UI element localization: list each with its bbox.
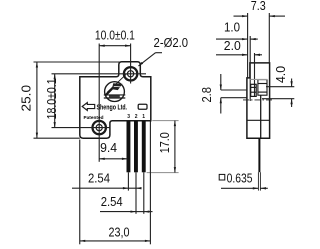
label 2-Ø2.0 leader line with arrow: [156, 52, 163, 54]
logo circle emblem: [105, 82, 125, 102]
side view internal vertical front layer 1: [249, 36, 251, 101]
dimension 9.4 line with arrows: [99, 158, 127, 160]
small rounded badge: [138, 104, 147, 109]
dimension 7.3 line with outside arrows: [234, 15, 248, 17]
svg-text:2.54: 2.54: [101, 194, 123, 209]
svg-text:2-Ø2.0: 2-Ø2.0: [154, 35, 189, 50]
pin 3 (left): [127, 121, 131, 172]
grey extension line at pin bottom for 17.0: [147, 172, 179, 174]
dimension 2.54 (pins 3-2) line with outside arrows: [72, 187, 128, 189]
dimension 17.0 vertical line with arrows: [174, 121, 176, 173]
logo ground band upper line: [104, 94, 126, 96]
bottom hole vertical centerline / 10.0 + 9.4 extension line: [98, 44, 100, 162]
extension line lower for 4.0: [262, 98, 294, 100]
svg-text:2.8: 2.8: [199, 87, 214, 103]
dash-dot centerline: [243, 99, 274, 101]
square symbol for 0.635: [219, 174, 225, 180]
bottom mounting hole inner circle: [96, 125, 102, 131]
top mounting hole boss outer circle: [124, 67, 137, 80]
rear box internal line 1: [258, 83, 267, 85]
bottom mounting hole boss outer circle: [93, 121, 106, 134]
logo ground band lower line: [104, 97, 126, 99]
logo flagpole thick diagonal: [106, 87, 114, 95]
dimension 18.0±0.1 vertical line with arrows: [54, 74, 56, 128]
side view pin (edge-on): [258, 138, 260, 172]
svg-text:1.0: 1.0: [224, 20, 240, 35]
dimension 10.0±0.1 line with arrows: [99, 45, 130, 47]
side view grey internal shelf line: [250, 78, 267, 80]
pin 1 extension line: [143, 172, 145, 214]
extension line left for 23.0: [79, 140, 81, 245]
pin edge extension line left: [257, 172, 259, 190]
element internal line 2: [251, 91, 257, 93]
logo flag white stripe: [114, 85, 121, 88]
rear box internal line 2: [258, 91, 267, 93]
top hole horizontal centerline / 18.0 extension line: [52, 73, 147, 75]
dimension 25.0 vertical line with arrows: [36, 62, 38, 138]
svg-text:23,0: 23,0: [109, 225, 130, 240]
svg-text:17.0: 17.0: [157, 132, 172, 153]
side view internal rear box: [258, 80, 267, 96]
svg-text:Shengo: Shengo: [97, 105, 117, 112]
pin 2 (middle): [134, 121, 138, 172]
top mounting hole inner circle: [128, 71, 134, 77]
svg-text:0.635: 0.635: [227, 171, 253, 186]
element internal line 1: [251, 86, 257, 88]
front view package body outline: [80, 62, 151, 139]
svg-text:9.4: 9.4: [100, 140, 117, 155]
extension line lower for 2.8: [221, 97, 247, 99]
svg-text:2.54: 2.54: [88, 170, 110, 185]
bottom hole horizontal centerline / 18.0 extension line: [52, 127, 111, 129]
dimension 4.0 vertical with outside arrows: [291, 79, 293, 87]
side view sensing element box: [251, 84, 257, 96]
svg-text:2: 2: [135, 114, 138, 120]
dimension 2.54 (pins 2-1) line with outside arrows: [100, 211, 136, 213]
dimension 23.0 line with arrows: [80, 240, 151, 242]
dimension 1.0 line with outside arrows: [216, 38, 248, 40]
pin 3 extension line: [127, 172, 129, 190]
svg-text:2.0: 2.0: [224, 38, 241, 53]
logo ground band dark rect: [109, 95, 120, 97]
pin edge extension line right: [259, 172, 261, 190]
extension line upper for 4.0: [266, 86, 294, 88]
pin 1 (right): [142, 121, 146, 172]
logo flagpole thin diagonal: [107, 74, 126, 92]
grey extension line at body bottom for 17.0: [152, 120, 178, 122]
dimension 2.0 line with outside arrows: [216, 54, 248, 56]
extension line bottom of package for 25.0: [34, 137, 80, 139]
svg-text:Ltd.: Ltd.: [118, 105, 128, 112]
extension line top of package for 25.0: [34, 61, 121, 63]
svg-text:18.0±0.1: 18.0±0.1: [44, 78, 59, 119]
svg-text:7.3: 7.3: [251, 0, 266, 13]
dimension 2.8 vertical with outside arrows: [220, 74, 222, 90]
logo pennant flag: [112, 83, 123, 90]
extension line right for 7.3: [268, 13, 270, 63]
svg-text:10.0±0.1: 10.0±0.1: [95, 28, 135, 43]
side view package outline: [247, 63, 270, 138]
pin 2 extension line: [135, 172, 137, 214]
direction arrow badge (left-pointing outline arrow): [82, 103, 95, 111]
svg-text:3: 3: [127, 114, 130, 120]
top hole vertical centerline / 10.0 extension line: [130, 44, 132, 84]
side view horizontal parting line at body/tab bottom: [247, 119, 270, 121]
svg-text:Patented: Patented: [84, 115, 104, 120]
svg-text:25.0: 25.0: [18, 85, 33, 112]
svg-text:4.0: 4.0: [273, 66, 288, 83]
svg-text:1: 1: [142, 114, 145, 120]
extension line upper for 2.8: [221, 89, 247, 91]
dimension 0.635 line with outside arrows: [221, 187, 258, 189]
extension line left for 7.3: [247, 13, 249, 78]
side view internal vertical front layer 2: [254, 53, 256, 97]
extension line right for 23.0: [149, 122, 151, 245]
side view internal vertical lower mid: [260, 95, 262, 138]
